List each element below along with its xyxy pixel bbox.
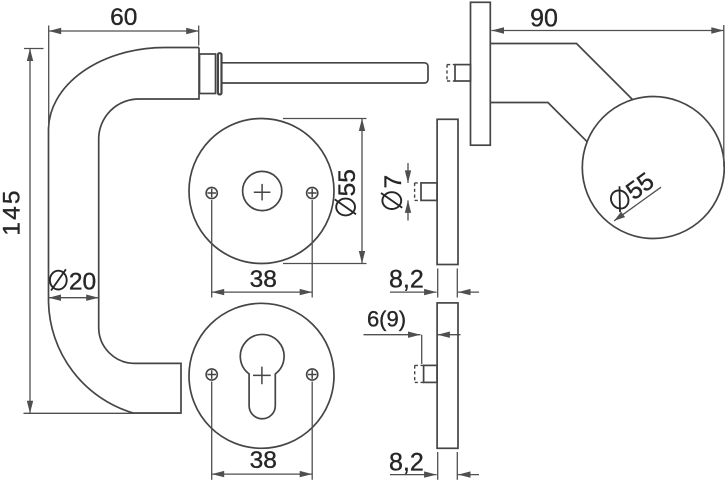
dim 90 extension line bbox=[723, 25, 725, 167]
dim Ø20 line bbox=[49, 297, 99, 299]
plate3 spindle lug dashed bbox=[414, 365, 416, 382]
dim 6(9) leader bbox=[364, 334, 421, 336]
svg-text:8,2: 8,2 bbox=[389, 448, 424, 476]
lever neck collar bbox=[200, 54, 216, 94]
knob neck upper line bbox=[490, 44, 632, 100]
svg-text:8,2: 8,2 bbox=[389, 265, 424, 293]
top rosette center hole bbox=[243, 171, 282, 210]
top rosette center cross bbox=[254, 191, 271, 193]
bottom rosette right screw bbox=[307, 369, 318, 380]
bottom rosette outer circle bbox=[189, 303, 334, 448]
knob Ø55 label bbox=[606, 168, 659, 217]
cylinder rosette side view plate bbox=[437, 303, 458, 448]
dim 90 line bbox=[492, 30, 724, 32]
lever neck ring bbox=[218, 53, 222, 94]
knob rosette plate side view bbox=[471, 2, 491, 145]
dim 8,2 bottom arrows bbox=[390, 474, 437, 476]
dim Ø55 line bbox=[361, 119, 363, 264]
svg-text:38: 38 bbox=[250, 266, 277, 293]
dim Ø7 arrows bbox=[407, 163, 409, 183]
svg-text:20: 20 bbox=[69, 268, 96, 295]
dim Ø20 label bbox=[50, 268, 96, 295]
bottom rosette center cross bbox=[253, 374, 271, 376]
lever rosette side view plate bbox=[437, 119, 458, 264]
svg-text:60: 60 bbox=[110, 4, 137, 31]
plate2 spindle lug solid bbox=[421, 183, 437, 201]
svg-text:90: 90 bbox=[530, 4, 558, 32]
bottom rosette cylinder hole bbox=[240, 334, 284, 418]
svg-text:55: 55 bbox=[621, 168, 659, 206]
top rosette outer circle bbox=[189, 119, 334, 264]
dim 60 extension lines bbox=[48, 26, 50, 128]
bottom rosette left screw bbox=[206, 369, 217, 380]
svg-text:55: 55 bbox=[334, 169, 361, 196]
dim Ø7 label bbox=[380, 175, 407, 209]
dim 145 line bbox=[29, 49, 31, 414]
top rosette right screw bbox=[307, 187, 318, 198]
lever handle outline bbox=[49, 48, 200, 414]
dim 145 ticks bbox=[24, 48, 44, 50]
dim 8,2 top extension lines bbox=[437, 269, 439, 298]
svg-text:38: 38 bbox=[250, 447, 277, 474]
lever spindle rod bbox=[222, 63, 428, 83]
plate3 spindle lug solid bbox=[424, 365, 438, 382]
svg-text:6(9): 6(9) bbox=[367, 307, 406, 332]
dim 8,2 top arrows bbox=[390, 291, 437, 293]
plate2 spindle lug dashed bbox=[414, 183, 416, 201]
dim 60 line bbox=[49, 30, 199, 32]
svg-text:145: 145 bbox=[0, 188, 26, 235]
knob circle bbox=[582, 97, 724, 239]
dim Ø55 extension lines bbox=[283, 118, 367, 120]
knob spindle lug solid bbox=[455, 65, 471, 81]
dim 38 top extension lines bbox=[211, 200, 213, 298]
dim 38 top line bbox=[212, 291, 313, 293]
knob neck lower line bbox=[490, 103, 587, 142]
dim 38 bottom extension lines bbox=[211, 382, 213, 480]
knob spindle lug dashed bbox=[446, 65, 448, 81]
dim Ø55 label bbox=[334, 169, 361, 215]
dim 38 bottom line bbox=[212, 473, 313, 475]
knob Ø55 leader line bbox=[614, 187, 661, 221]
top rosette left screw bbox=[206, 187, 217, 198]
svg-text:7: 7 bbox=[380, 175, 407, 189]
dim 8,2 bottom extension lines bbox=[437, 452, 439, 480]
